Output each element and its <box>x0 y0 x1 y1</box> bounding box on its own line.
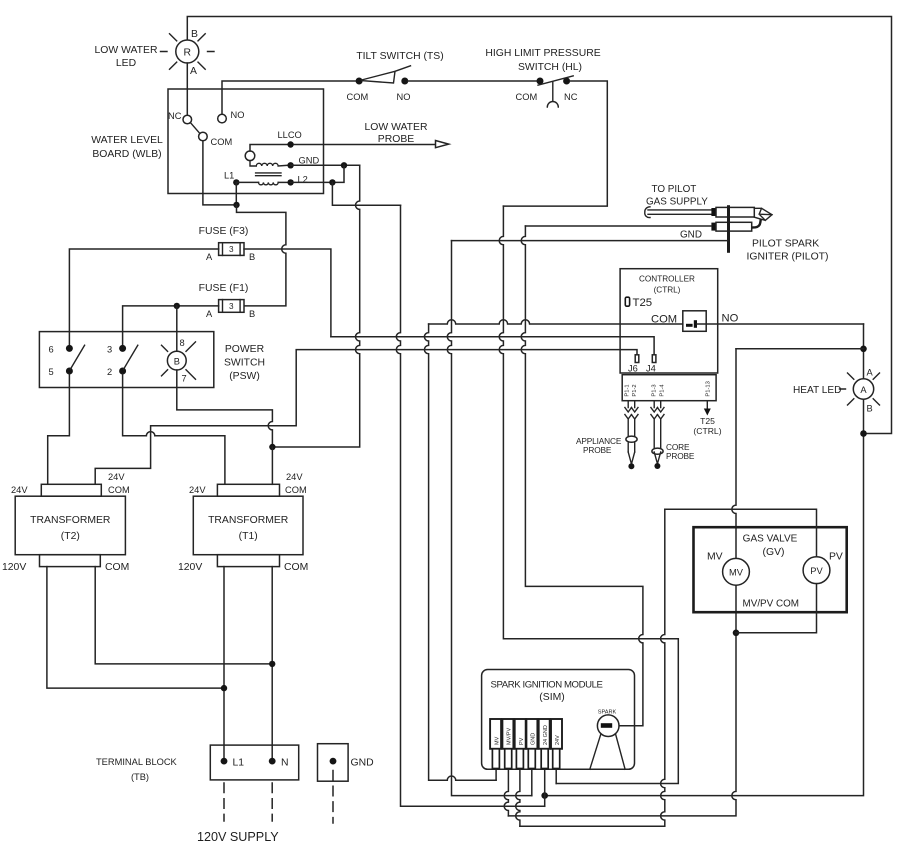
svg-text:R: R <box>184 48 192 59</box>
node neutral junction <box>269 661 275 667</box>
svg-text:MV: MV <box>494 736 500 745</box>
transformer T2 <box>2 472 130 573</box>
svg-text:LOW WATER: LOW WATER <box>95 45 158 56</box>
svg-text:LOW WATER: LOW WATER <box>365 122 428 133</box>
svg-text:COM: COM <box>108 485 130 495</box>
terminal block (TB) <box>210 745 298 780</box>
PSW contact 2 <box>119 368 126 375</box>
wire GND tap jog to L2 node <box>332 165 344 182</box>
PSW blade 5-6 <box>71 345 85 369</box>
wire T2 COM lead to N node <box>95 567 272 664</box>
svg-text:GAS VALVE: GAS VALVE <box>743 534 798 545</box>
svg-text:24 GND: 24 GND <box>543 725 549 745</box>
SIM spark transformer <box>590 710 625 770</box>
wire SIM GND pin riser <box>531 769 533 796</box>
wire junction to fuse F1 B <box>237 205 286 306</box>
svg-text:B: B <box>249 252 255 262</box>
wire dashed supply ground <box>332 771 334 824</box>
controller J6 pin <box>635 355 639 363</box>
node T1 24VCOM junction <box>269 444 275 450</box>
svg-text:GND: GND <box>351 758 374 769</box>
WLB relay NC terminal <box>183 115 192 124</box>
node L2 junction <box>329 179 335 185</box>
svg-text:P1-3: P1-3 <box>652 384 658 396</box>
svg-text:8: 8 <box>180 338 185 348</box>
wire L2 terminal to L2 junction <box>291 181 333 183</box>
tilt switch TS <box>347 66 411 102</box>
svg-text:A: A <box>867 368 874 378</box>
svg-text:(CTRL): (CTRL) <box>693 426 721 436</box>
MV valve coil <box>723 558 750 585</box>
wire heat-led line down to 24GND row <box>545 324 864 796</box>
ground lug box <box>318 744 374 782</box>
wire L1 to winding <box>236 181 258 183</box>
node LLCO <box>287 141 293 147</box>
wire MV valve line down through gas valve to MV/PV COM <box>508 349 736 816</box>
svg-text:24V: 24V <box>286 472 303 482</box>
node GND bus tap <box>341 162 347 168</box>
svg-text:3: 3 <box>229 245 234 254</box>
WLB transformer core <box>256 173 281 176</box>
wire T1 120V lead down to TB L1 <box>223 567 225 758</box>
high-limit pressure switch HL <box>516 76 578 107</box>
wire winding to L2 <box>278 181 290 183</box>
wire SIM MV/PV pin riser <box>504 769 508 816</box>
svg-text:NO: NO <box>397 92 411 102</box>
svg-text:A: A <box>206 309 213 319</box>
wire L2 junction down and right to L2 bus (V2) <box>332 182 400 205</box>
svg-text:HEAT LED: HEAT LED <box>793 385 841 396</box>
wire T1 COM lead down to TB N <box>271 567 273 758</box>
svg-text:COM: COM <box>285 485 307 495</box>
wire lamp 7 down right and to T1 24VCOM node <box>177 370 273 447</box>
svg-text:P1-2: P1-2 <box>632 384 638 396</box>
wire PSW contact 2 to T1 24V <box>123 374 225 484</box>
wire T2 120V lead to L1 node <box>47 567 224 689</box>
svg-text:A: A <box>190 66 197 77</box>
svg-text:GND: GND <box>299 156 320 166</box>
controller (CTRL) box <box>620 269 718 373</box>
svg-text:J6: J6 <box>628 364 638 374</box>
core probe wire pair with arrows <box>651 401 664 469</box>
wire PV feed from SIM PV pin <box>665 509 817 633</box>
low water LED (R) <box>161 34 215 70</box>
wire LLCO to electrode <box>250 145 288 152</box>
svg-text:HIGH LIMIT PRESSURE: HIGH LIMIT PRESSURE <box>485 48 600 59</box>
svg-text:A: A <box>860 385 867 395</box>
power switch (PSW) box <box>39 332 213 388</box>
svg-text:24V: 24V <box>108 472 125 482</box>
fuse F1 <box>199 283 256 319</box>
svg-text:MV/PV: MV/PV <box>507 728 513 745</box>
svg-text:FUSE (F3): FUSE (F3) <box>199 226 249 237</box>
node L2 <box>287 179 293 185</box>
node heat LED bottom junction <box>860 430 867 437</box>
controller J4 pin <box>652 355 656 363</box>
wire lamp tap down to lamp 8 <box>176 306 178 351</box>
wire dashed 120V supply N <box>271 783 273 821</box>
svg-text:GND: GND <box>680 230 702 241</box>
WLB relay blade NC-COM <box>190 123 199 134</box>
PSW blade 2-3 <box>124 345 138 369</box>
svg-text:2: 2 <box>107 367 112 377</box>
wire dashed 120V supply L1 <box>223 783 225 821</box>
svg-text:NO: NO <box>231 110 245 120</box>
svg-text:SPARK IGNITION MODULE: SPARK IGNITION MODULE <box>491 680 603 691</box>
svg-text:COM: COM <box>284 562 308 573</box>
pilot gas supply tube <box>645 207 772 221</box>
svg-text:120V: 120V <box>2 562 26 573</box>
svg-text:PILOT SPARK: PILOT SPARK <box>752 239 819 250</box>
node heat LED top junction <box>860 346 867 353</box>
wire SIM MV pin riser <box>495 769 497 781</box>
node F1A lamp tap <box>174 303 180 309</box>
svg-text:24V: 24V <box>189 485 206 495</box>
SIM terminal strip <box>490 719 562 769</box>
node GND <box>287 162 293 168</box>
svg-text:COM: COM <box>105 562 129 573</box>
wire COM terminal down to L1 junction <box>203 141 237 205</box>
wire top loop from LED B to far right down to heat-led junction <box>187 17 891 434</box>
svg-text:COM: COM <box>211 137 233 147</box>
spark ignition module (SIM) box <box>482 670 635 770</box>
svg-text:T25: T25 <box>700 416 715 426</box>
svg-text:PV: PV <box>810 566 823 576</box>
svg-text:(TB): (TB) <box>131 772 149 782</box>
svg-text:N: N <box>281 758 289 769</box>
WLB transformer lower winding <box>259 182 279 184</box>
wire TS NO to HL COM <box>408 80 537 82</box>
svg-text:GND: GND <box>531 733 537 745</box>
svg-text:7: 7 <box>182 374 187 384</box>
svg-text:5: 5 <box>49 367 54 377</box>
svg-text:BOARD (WLB): BOARD (WLB) <box>92 149 161 160</box>
svg-text:PROBE: PROBE <box>378 134 414 145</box>
svg-text:B: B <box>191 29 198 40</box>
node MV/PV COM junction <box>733 630 740 637</box>
svg-text:P1-1: P1-1 <box>625 384 631 396</box>
wire GND terminal to GND bus <box>291 164 360 166</box>
low water probe arrow wire <box>294 144 436 146</box>
svg-text:120V: 120V <box>178 562 202 573</box>
svg-text:P1-4: P1-4 <box>660 384 666 397</box>
svg-text:TILT SWITCH (TS): TILT SWITCH (TS) <box>356 51 443 62</box>
svg-text:WATER LEVEL: WATER LEVEL <box>91 135 163 146</box>
wire LED A to NC terminal <box>186 63 188 115</box>
wire GND bus V1 down to T1 24V COM node <box>272 165 359 447</box>
wire T2 24VCOM riser to controller J6 feed H2 <box>95 350 637 485</box>
svg-text:(PSW): (PSW) <box>229 371 260 382</box>
svg-text:TRANSFORMER: TRANSFORMER <box>208 515 289 526</box>
svg-text:PV: PV <box>829 552 843 563</box>
wire L1 down to junction <box>235 182 237 205</box>
wire V2b controller COM chain down to SIM MV pin row <box>424 324 496 780</box>
node COM/L1 junction <box>233 202 239 208</box>
PV valve coil <box>803 557 830 584</box>
T25 sensor icon <box>625 297 629 306</box>
svg-text:NC: NC <box>168 111 182 121</box>
svg-text:3: 3 <box>229 302 234 311</box>
svg-text:24V: 24V <box>555 735 561 745</box>
svg-text:GAS SUPPLY: GAS SUPPLY <box>646 197 708 208</box>
wire spark electrode line to V5 <box>525 225 711 227</box>
heat LED <box>840 368 880 414</box>
wire 24GND pin riser through junction to row C <box>544 769 546 807</box>
wire relay NO to heat-led line <box>697 323 864 325</box>
wire junction down to T1 24V COM tab <box>271 447 273 484</box>
svg-text:J4: J4 <box>646 364 656 374</box>
water level board (WLB) box <box>168 89 324 194</box>
svg-text:SWITCH (HL): SWITCH (HL) <box>518 62 582 73</box>
svg-text:P1-13: P1-13 <box>705 381 711 396</box>
wire SIM PV pin riser <box>516 769 520 827</box>
PSW contact 6 <box>66 345 73 352</box>
wire heat junction to MV valve line <box>736 348 864 350</box>
svg-text:(GV): (GV) <box>763 547 785 558</box>
wire V5 spark chain down to SIM spark transformer <box>521 226 643 726</box>
svg-text:120V SUPPLY: 120V SUPPLY <box>197 830 279 844</box>
wire SIM 24V pin riser <box>555 769 557 784</box>
svg-text:MV: MV <box>707 552 723 563</box>
svg-text:PV: PV <box>519 737 525 745</box>
svg-text:NC: NC <box>564 92 578 102</box>
svg-text:B: B <box>174 357 180 367</box>
pilot spark igniter electrode assembly <box>711 219 760 231</box>
svg-text:TRANSFORMER: TRANSFORMER <box>30 515 111 526</box>
svg-text:(CTRL): (CTRL) <box>654 286 681 295</box>
node L1 <box>233 179 239 185</box>
svg-text:PROBE: PROBE <box>666 451 695 461</box>
wire PV chain V down to row E <box>520 509 665 826</box>
svg-text:24V: 24V <box>11 485 28 495</box>
PSW lamp B <box>162 338 196 384</box>
svg-text:TERMINAL BLOCK: TERMINAL BLOCK <box>96 757 178 767</box>
svg-text:POWER: POWER <box>225 344 265 355</box>
svg-text:COM: COM <box>516 92 538 102</box>
wire V3 pilot-gnd chain down to SIM GND pin <box>447 241 531 796</box>
wire HL NC right and down to safety chain V4 <box>503 81 607 206</box>
node 24GND junction <box>541 792 548 799</box>
pilot mounting bracket <box>727 205 730 253</box>
wire F1 A to PSW contact 3 <box>123 306 219 345</box>
wire pilot GND to V3 <box>452 240 728 242</box>
wire F3 B right and down to H1 (J4 feed) <box>244 249 331 337</box>
wire safety chain V4 down <box>499 206 678 783</box>
svg-text:6: 6 <box>49 345 54 355</box>
P1-13 T25 output arrow <box>704 401 711 416</box>
svg-text:LLCO: LLCO <box>278 130 302 140</box>
svg-text:T25: T25 <box>633 297 653 309</box>
svg-text:IGNITER (PILOT): IGNITER (PILOT) <box>747 252 829 263</box>
svg-text:TO PILOT: TO PILOT <box>652 184 697 195</box>
wire L2 bus V2 down to 24GND row C <box>396 205 544 806</box>
svg-text:MV: MV <box>729 568 744 578</box>
appliance probe wire pair with arrows <box>625 401 638 470</box>
svg-text:FUSE (F1): FUSE (F1) <box>199 283 249 294</box>
svg-text:COM: COM <box>347 92 369 102</box>
svg-text:SWITCH: SWITCH <box>224 358 265 369</box>
svg-text:LED: LED <box>116 58 136 69</box>
WLB transformer upper winding <box>250 161 288 166</box>
svg-text:B: B <box>867 404 873 414</box>
controller relay contact box <box>683 311 706 332</box>
node 120V junction <box>221 685 227 691</box>
PSW contact 5 <box>66 368 73 375</box>
svg-text:L1: L1 <box>233 758 245 769</box>
fuse F3 <box>199 226 256 262</box>
WLB probe transformer: LLCO electrode circle <box>245 151 255 161</box>
wire NO terminal up and to tilt switch COM <box>222 81 356 114</box>
gas valve (GV) box <box>694 527 847 612</box>
WLB relay NO terminal <box>218 114 227 123</box>
svg-text:(T2): (T2) <box>61 531 80 542</box>
wire F3 A to PSW contact 6 <box>69 249 218 345</box>
svg-text:(T1): (T1) <box>239 531 258 542</box>
wire controller COM from V2b <box>429 320 683 324</box>
PSW contact 3 <box>119 345 126 352</box>
svg-text:B: B <box>249 309 255 319</box>
svg-text:CONTROLLER: CONTROLLER <box>639 275 695 284</box>
svg-text:(SIM): (SIM) <box>539 692 564 703</box>
svg-text:PROBE: PROBE <box>583 445 612 455</box>
svg-text:MV/PV COM: MV/PV COM <box>743 599 800 610</box>
wire H1 to controller J4 <box>331 337 654 355</box>
wire PSW contact 5 to T2 24V <box>48 374 70 484</box>
controller P1 terminal strip <box>622 375 716 401</box>
svg-text:A: A <box>206 252 213 262</box>
svg-text:NO: NO <box>722 313 739 325</box>
svg-text:L1: L1 <box>224 171 234 181</box>
transformer T1 <box>178 472 308 573</box>
svg-text:3: 3 <box>107 345 112 355</box>
WLB relay COM terminal <box>199 132 208 141</box>
